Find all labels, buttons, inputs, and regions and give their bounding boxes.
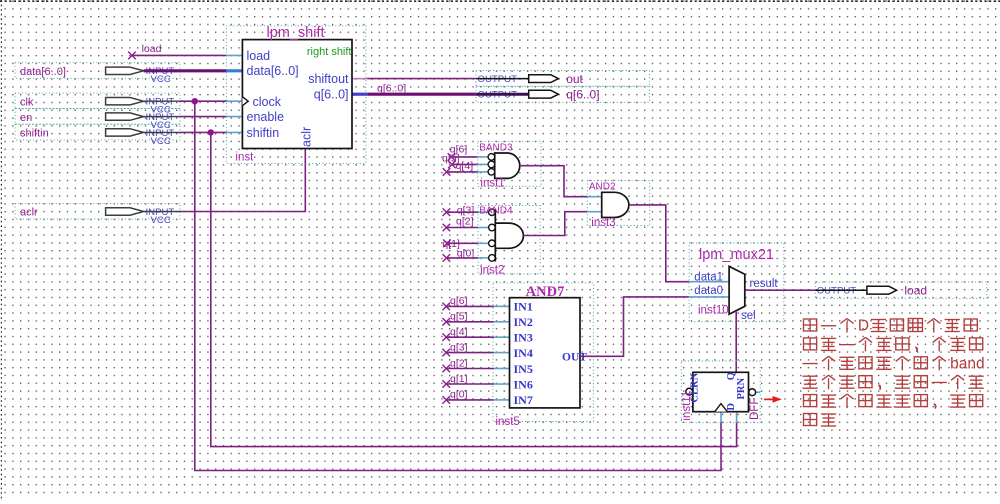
svg-text:inst1: inst1	[480, 178, 504, 190]
svg-text:data0: data0	[694, 285, 723, 297]
svg-text:q[2]: q[2]	[450, 357, 468, 369]
node label q[5]	[442, 153, 460, 165]
wire q[5] into BAND3	[448, 161, 478, 169]
svg-text:lpm_shift: lpm_shift	[266, 25, 324, 41]
node label q[3]	[450, 341, 468, 353]
node label q[1]	[450, 373, 468, 385]
svg-text:load: load	[904, 284, 927, 298]
svg-text:inst11: inst11	[681, 391, 693, 421]
wire en to block	[180, 116, 226, 118]
wire aclr up to block	[180, 149, 305, 212]
svg-text:inst2: inst2	[480, 265, 504, 277]
svg-text:shiftin: shiftin	[247, 126, 280, 140]
node label q[6]	[450, 144, 468, 156]
svg-text:clock: clock	[253, 95, 282, 109]
node label q[4]	[450, 326, 468, 338]
wire q[1] into AND7	[442, 380, 494, 388]
output pin out	[476, 71, 649, 87]
svg-text:data1: data1	[694, 272, 723, 284]
2-to-1 mux lpm_mux21 inst10	[689, 243, 784, 322]
D flip-flop DFF inst11 (rotated)	[681, 361, 761, 423]
svg-text:q[4]: q[4]	[456, 160, 474, 172]
svg-text:D: D	[726, 403, 737, 411]
wire clk down to DFF clock	[195, 101, 721, 470]
svg-text:Q: Q	[726, 372, 737, 380]
wire sel to DFF Q	[735, 311, 737, 379]
wire q[0] into AND7	[442, 396, 494, 404]
node label load	[142, 43, 162, 55]
output pin q[6..0]	[476, 86, 649, 102]
node label q[4]	[456, 160, 474, 172]
svg-text:q[3]: q[3]	[450, 341, 468, 353]
svg-text:q[2]: q[2]	[456, 215, 474, 227]
svg-text:AND7: AND7	[526, 284, 565, 300]
wire q[2] into BAND4	[443, 224, 478, 232]
svg-text:q[0]: q[0]	[450, 389, 468, 401]
svg-text:inst3: inst3	[591, 217, 615, 229]
3-input AND gate with inverted inputs BAND3 inst1	[478, 141, 541, 189]
svg-text:q[0]: q[0]	[457, 248, 475, 260]
svg-text:q[5]: q[5]	[450, 311, 468, 323]
svg-text:q[1]: q[1]	[450, 373, 468, 385]
wire data bus to block	[180, 69, 226, 72]
svg-text:IN2: IN2	[514, 315, 533, 329]
node label q[2]	[456, 215, 474, 227]
svg-text:OUT: OUT	[562, 351, 587, 363]
svg-text:clk: clk	[20, 96, 34, 108]
wire shiftin to block	[180, 131, 226, 133]
wire q[3] into AND7	[442, 349, 494, 357]
4-input AND gate with inverted inputs BAND4 inst2	[478, 206, 540, 277]
wire q bus to output pin	[367, 93, 476, 96]
svg-text:AND2: AND2	[589, 182, 616, 193]
wire q[5] into AND7	[442, 318, 494, 326]
svg-text:IN7: IN7	[514, 393, 533, 407]
svg-text:OUTPUT: OUTPUT	[817, 286, 857, 297]
svg-text:IN3: IN3	[514, 331, 533, 345]
wire q[3] into BAND4	[443, 208, 478, 216]
wire q[4] into BAND3	[443, 168, 478, 176]
svg-text:q[6]: q[6]	[450, 295, 468, 307]
wire clk to block	[180, 100, 226, 102]
wire q[1] into BAND4	[443, 240, 478, 248]
svg-text:inst5: inst5	[496, 416, 520, 428]
wire q[6] into AND7	[442, 303, 494, 311]
wire q[6] into BAND3	[448, 153, 478, 161]
svg-text:IN5: IN5	[514, 362, 533, 376]
svg-text:out: out	[566, 72, 583, 86]
wire BAND4 out to AND2	[523, 212, 587, 236]
svg-text:VCC: VCC	[151, 74, 171, 85]
input pin data[6..0]	[15, 63, 180, 85]
svg-text:IN1: IN1	[514, 300, 533, 314]
svg-text:band: band	[950, 356, 984, 373]
svg-text:q[6..0]: q[6..0]	[377, 82, 406, 94]
wire shiftin down to DFF D	[211, 132, 737, 446]
wire BAND3 out to AND2	[520, 166, 587, 197]
svg-text:load: load	[247, 49, 271, 63]
wire AND7 out to mux data0	[580, 297, 689, 356]
node label q[6]	[450, 295, 468, 307]
input pin en	[15, 109, 180, 132]
node label q[3]	[457, 204, 475, 216]
svg-text:PRN: PRN	[736, 378, 747, 400]
svg-text:q[6..0]: q[6..0]	[566, 88, 599, 102]
junction clk	[192, 98, 198, 104]
svg-text:aclr: aclr	[300, 127, 314, 147]
svg-text:sel: sel	[741, 310, 756, 322]
svg-text:en: en	[20, 112, 32, 124]
svg-text:shiftin: shiftin	[20, 128, 49, 140]
lpm_shift inst	[226, 25, 367, 163]
svg-text:VCC: VCC	[151, 215, 171, 226]
node label q[6..0]	[377, 82, 406, 94]
output pin load	[815, 282, 987, 298]
node label q[0]	[450, 389, 468, 401]
wire q[0] into BAND4	[443, 254, 478, 262]
svg-text:IN4: IN4	[514, 346, 533, 360]
red chinese annotation text	[803, 318, 985, 426]
svg-text:DFF: DFF	[749, 398, 761, 420]
svg-text:lpm_mux21: lpm_mux21	[699, 247, 774, 263]
junction shiftin	[208, 129, 214, 135]
svg-text:OUTPUT: OUTPUT	[478, 74, 518, 85]
svg-text:q[4]: q[4]	[450, 326, 468, 338]
svg-text:shiftout: shiftout	[308, 72, 349, 86]
svg-text:BAND3: BAND3	[479, 143, 513, 154]
svg-text:load: load	[142, 43, 162, 55]
wire AND2 out to mux data1	[629, 205, 689, 282]
wire q[2] into AND7	[442, 365, 494, 373]
wire q[4] into AND7	[442, 333, 494, 341]
2-input AND gate AND2 inst3	[587, 181, 650, 230]
input pin aclr	[15, 203, 180, 226]
input pin shiftin	[15, 124, 180, 147]
svg-text:IN6: IN6	[514, 377, 533, 391]
wire result to load output pin	[745, 289, 815, 291]
svg-text:result: result	[750, 278, 779, 290]
svg-text:aclr: aclr	[20, 207, 38, 219]
node label q[2]	[450, 357, 468, 369]
svg-text:data[6..0]: data[6..0]	[20, 66, 66, 78]
red annotation arrow	[764, 396, 782, 403]
node label q[0]	[457, 248, 475, 260]
7-input AND gate AND7 inst5	[493, 283, 593, 428]
svg-text:enable: enable	[247, 110, 285, 124]
svg-text:VCC: VCC	[151, 136, 171, 147]
node label q[5]	[450, 311, 468, 323]
svg-text:data[6..0]: data[6..0]	[247, 64, 299, 78]
wire load (dangling to load port)	[128, 52, 226, 60]
node label q[1]	[442, 238, 460, 250]
wire shiftout to out pin	[367, 78, 476, 80]
input pin clk	[15, 93, 180, 116]
svg-text:BAND4: BAND4	[479, 206, 513, 217]
svg-text:right shift: right shift	[307, 46, 352, 58]
svg-text:inst10: inst10	[698, 305, 729, 317]
svg-text:q[6..0]: q[6..0]	[314, 87, 349, 101]
svg-text:inst: inst	[235, 151, 254, 163]
svg-text:D: D	[858, 318, 869, 335]
